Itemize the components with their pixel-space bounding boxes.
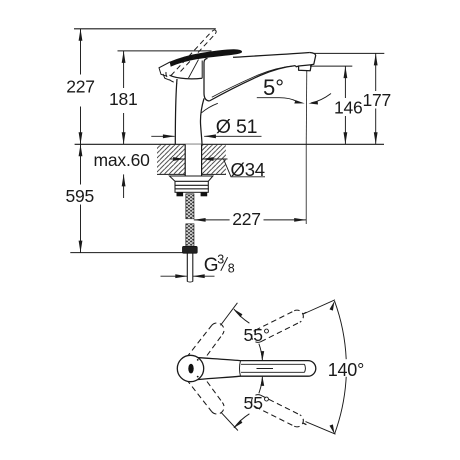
top view solid faucet — [177, 355, 315, 381]
140 deg boundary line lower — [306, 422, 336, 435]
140 deg boundary line upper — [306, 300, 336, 313]
dim 181 — [122, 51, 126, 144]
140 deg arc + arrows — [330, 301, 347, 434]
inner lines end curve — [304, 364, 307, 372]
handle slot (top view) — [188, 364, 193, 374]
dashed spout upper-left (55 deg position) — [187, 323, 225, 358]
dim 146 — [344, 66, 348, 144]
note 5 degrees leader — [257, 94, 331, 105]
max.60 lower arrow — [122, 174, 126, 198]
threaded rod (upper) — [186, 194, 194, 219]
body right edge (S-curve) — [200, 98, 204, 144]
svg-text:140°: 140° — [328, 360, 364, 380]
handle front facet line — [189, 60, 199, 79]
ray upper 55 — [221, 303, 238, 326]
ray lower 55 — [221, 412, 238, 430]
washer / mounting cone — [170, 176, 213, 189]
body left edge — [175, 79, 177, 144]
G3/8 width arrows — [161, 274, 215, 278]
ref line 177 (spout top level) — [314, 52, 384, 54]
body dots — [197, 359, 199, 361]
dashed spout end upper-right — [252, 310, 304, 342]
ref line top (raised lever tip level) — [74, 28, 216, 30]
base ring with screws — [175, 189, 208, 196]
hatched counter right — [202, 144, 226, 174]
nub upper-right — [303, 312, 307, 314]
spout neck curve — [240, 361, 241, 377]
water stream line — [305, 71, 308, 145]
svg-text:595: 595 — [65, 186, 94, 206]
spout underside inner line — [212, 66, 294, 97]
center tick line between 55 arrows — [257, 368, 274, 370]
dim Ø34 leader — [170, 157, 265, 177]
spout tip — [310, 53, 316, 65]
svg-text:3: 3 — [217, 253, 224, 267]
svg-text:8: 8 — [228, 262, 235, 276]
spout top edge — [233, 53, 310, 58]
svg-text:55°: 55° — [244, 325, 270, 345]
spout bar outline — [199, 358, 316, 380]
dashed raised lever — [166, 30, 216, 84]
spout inner line top — [241, 363, 305, 365]
spout root slab edge + rounded bottom — [204, 58, 209, 101]
body circle — [177, 355, 203, 381]
dim 177 — [374, 53, 378, 144]
55 deg upper arc + arrows — [234, 309, 264, 361]
svg-text:max.60: max.60 — [94, 150, 151, 170]
dim 227 (horizontal, below counter) — [194, 218, 307, 222]
lever rear outline — [159, 62, 170, 80]
handle body right edge — [201, 61, 203, 79]
ref line 181 (lever top level) — [118, 50, 212, 52]
dim 227 (left vertical) — [79, 29, 83, 145]
dashed spout end lower-right — [252, 395, 304, 427]
nub lower-right — [303, 423, 307, 425]
surface line (counter top) — [75, 143, 384, 145]
ref line 146 (aerator level) — [310, 65, 352, 67]
faucet body side view — [170, 53, 316, 145]
svg-text:181: 181 — [109, 89, 138, 109]
svg-text:146: 146 — [334, 98, 363, 118]
label G 3/8 — [204, 253, 235, 277]
svg-text:5°: 5° — [263, 75, 284, 100]
lever (black blade) — [170, 50, 242, 67]
ref line 595 bottom — [70, 252, 183, 254]
threaded rod (lower) — [186, 224, 194, 247]
hatched counter left — [157, 144, 185, 174]
spout underside outer — [209, 66, 295, 101]
ref line 227 right (below surface) — [305, 144, 307, 224]
body top / handle base arc — [170, 75, 203, 79]
svg-text:55°: 55° — [244, 393, 270, 413]
svg-text:177: 177 — [362, 90, 391, 110]
dashed spout lower-left (55 deg position) — [187, 380, 225, 415]
dim 595 — [79, 144, 83, 252]
svg-text:Ø34: Ø34 — [231, 159, 265, 180]
spout inner shadow line at root — [202, 103, 218, 113]
dim Ø51 arrows — [151, 134, 261, 138]
aerator — [295, 65, 311, 71]
hex connector — [183, 246, 198, 253]
svg-text:227: 227 — [66, 77, 95, 97]
spout inner line bottom — [241, 371, 305, 373]
svg-text:Ø 51: Ø 51 — [216, 116, 257, 138]
supply tube — [187, 253, 193, 282]
55 deg lower arc + arrows — [234, 376, 264, 428]
shank through counter — [185, 144, 201, 176]
svg-text:227: 227 — [232, 209, 261, 229]
